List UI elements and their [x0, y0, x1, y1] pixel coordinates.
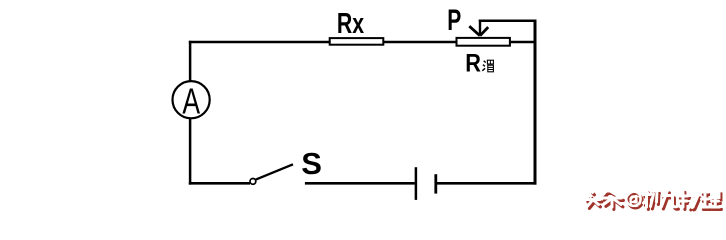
svg-text:A: A [182, 80, 200, 121]
watermark red shadow layer [588, 192, 722, 210]
switch S blade (open) [256, 164, 294, 179]
svg-text:Rx: Rx [337, 8, 364, 40]
white char jiu [662, 191, 677, 207]
svg-text:R: R [465, 50, 481, 78]
rheostat wiper arrowhead [469, 26, 488, 36]
battery B1 negative plate (short) [434, 174, 437, 193]
svg-text:P: P [447, 4, 461, 37]
wire: top rail, middle segment [384, 41, 457, 44]
wire: top rail, left segment [189, 41, 330, 44]
switch S pivot contact [250, 179, 256, 185]
white char wu [679, 190, 699, 208]
watermark white layer [586, 190, 720, 208]
rheostat R2 (R slider) body [457, 38, 510, 46]
shadow at-sign [628, 194, 642, 208]
resistor R1 (Rx) body [330, 38, 384, 45]
svg-text:S: S [301, 146, 322, 181]
ammeter M1 body [173, 81, 210, 118]
shadow char li [703, 194, 721, 210]
white at-sign [626, 192, 640, 206]
watermark: toutiao @chujiu physics [586, 190, 721, 210]
wire: bottom rail, left segment [189, 182, 250, 185]
shadow char tiao [604, 192, 623, 209]
wire: right rail [534, 20, 537, 185]
wire: left rail, lower segment [189, 118, 192, 184]
wire: bottom rail, switch to battery [305, 182, 415, 185]
white char chu [643, 190, 658, 207]
battery B1 positive plate (long) [415, 167, 418, 200]
shadow char chu [645, 192, 660, 209]
white char li [702, 192, 720, 208]
wire: bottom rail, battery to right rail [437, 182, 536, 185]
white char tou [586, 191, 600, 207]
wire: left rail, upper segment [189, 41, 192, 81]
white char tiao [603, 190, 622, 207]
shadow char tou [588, 193, 602, 209]
wire: top rail, right segment to right rail [510, 41, 537, 44]
shadow char jiu [663, 193, 678, 209]
wire: wiper link to right rail [479, 19, 537, 22]
label hua subscript glyph [482, 60, 493, 72]
rheostat wiper shaft P [479, 20, 481, 35]
shadow char wu [680, 192, 700, 210]
